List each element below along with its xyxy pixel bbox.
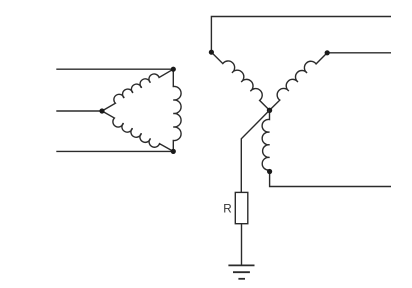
ground bar 3 (238, 278, 245, 280)
node wye phase B (325, 50, 330, 55)
node delta top vertex (171, 67, 176, 72)
delta winding bottom (102, 111, 173, 151)
wire resistor to ground (241, 224, 243, 266)
delta winding right (173, 69, 181, 151)
node delta left vertex (99, 108, 104, 113)
wire phase A left lead (56, 68, 173, 70)
node wye neutral center (267, 108, 272, 113)
wire phase C left lead (56, 150, 173, 152)
node delta bottom vertex (171, 149, 176, 154)
resistor R body (235, 192, 248, 223)
wire wye phase B terminal (327, 52, 391, 54)
wire wye phase A terminal (211, 17, 391, 53)
ground bar 1 (228, 264, 254, 266)
wire neutral to resistor (241, 110, 269, 192)
node wye phase C (267, 169, 272, 174)
node wye phase A (209, 50, 214, 55)
wye winding left (211, 52, 269, 110)
ground bar 2 (233, 271, 250, 273)
wye winding bottom (262, 110, 269, 171)
delta winding top (102, 69, 173, 111)
wire phase B left lead (56, 110, 102, 112)
svg-text:R: R (223, 203, 231, 216)
wire wye phase C terminal (270, 172, 391, 187)
wye winding right (270, 53, 328, 111)
